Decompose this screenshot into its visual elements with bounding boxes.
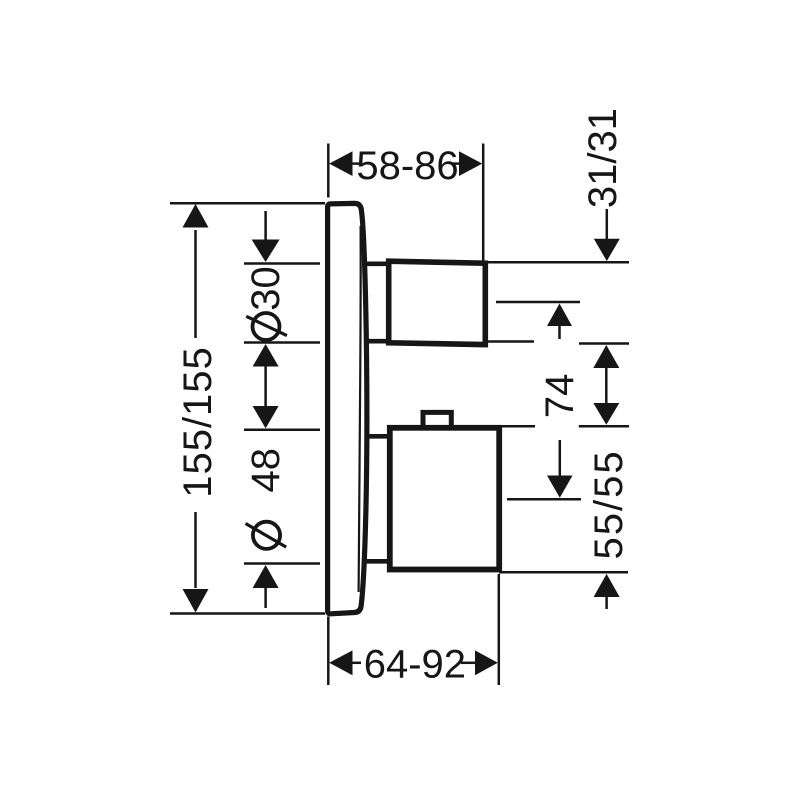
arrowhead d48 top (down) xyxy=(253,406,279,428)
escutcheon plate (side profile) xyxy=(328,203,367,613)
arrowhead 155/155 down xyxy=(183,589,209,613)
arrowhead d30 bottom (up) xyxy=(253,344,279,367)
small knob stem xyxy=(365,264,389,341)
tick small-knob bottom right xyxy=(486,342,629,344)
svg-text:55/55: 55/55 xyxy=(587,449,631,559)
diameter 48 tick bottom xyxy=(244,562,320,565)
diameter symbol of label 30 xyxy=(253,313,280,340)
diameter 48 tick top xyxy=(244,429,320,432)
dimension 155/155 top tick xyxy=(170,202,325,205)
tick big-knob bottom right xyxy=(499,571,628,574)
arrowhead 64-92 right xyxy=(475,650,498,675)
arrowhead 74 down xyxy=(593,403,619,425)
svg-text:155/155: 155/155 xyxy=(176,346,220,498)
arrowhead 31/31 (down) xyxy=(594,239,620,261)
dimension 155/155 line xyxy=(194,230,197,588)
tick small-knob top right xyxy=(483,261,630,264)
arrowhead d48 bottom (up) xyxy=(253,565,279,588)
dimension 74 line xyxy=(605,366,608,406)
chain double-arrow line between knobs xyxy=(264,364,267,408)
dimension 55/55 lower arrow tail xyxy=(605,597,608,609)
dimension 64-92 extension line right xyxy=(498,574,501,685)
svg-text:74: 74 xyxy=(538,374,582,419)
small knob body xyxy=(389,261,486,344)
arrow tail small-knob centerline xyxy=(558,324,561,339)
svg-text:48: 48 xyxy=(244,448,288,493)
arrowhead centerline small knob (up) xyxy=(547,304,572,327)
diameter symbol of label 48 xyxy=(253,522,280,549)
diameter 48 lower arrow tail xyxy=(264,588,267,608)
big knob tab xyxy=(423,412,451,426)
arrowhead 58-86 right xyxy=(459,151,482,176)
dimension 64-92 leader right xyxy=(461,662,477,665)
big knob body xyxy=(390,428,499,570)
tick small-knob centerline xyxy=(496,301,580,304)
diameter 30 tick bottom xyxy=(244,341,320,344)
dimension 58-86 extension line left xyxy=(327,144,330,198)
dimension 58-86 leader right xyxy=(452,162,462,165)
big knob stem xyxy=(365,436,390,561)
svg-text:64-92: 64-92 xyxy=(364,642,466,686)
plate front-face inner edge line xyxy=(359,226,361,592)
arrowhead d30 top (down) xyxy=(252,240,280,263)
dimension 155/155 bottom tick xyxy=(170,612,325,615)
arrowhead 155/155 up xyxy=(183,204,209,228)
dimension 64-92 extension line left xyxy=(327,617,330,686)
arrowhead 55/55 bottom (up) xyxy=(594,574,620,597)
dimension 58-86 extension line right xyxy=(482,144,485,263)
dimension 64-92 leader left xyxy=(351,662,361,665)
arrow tail big-knob centerline xyxy=(559,440,562,477)
arrowhead centerline big knob (down) xyxy=(547,476,573,498)
diameter 30 chain line top xyxy=(264,211,267,241)
svg-text:31/31: 31/31 xyxy=(581,108,625,208)
arrowhead 64-92 left xyxy=(329,650,352,675)
dimension 58-86 leader left xyxy=(351,162,360,165)
arrowhead 58-86 left xyxy=(329,151,352,176)
arrowhead 74 up xyxy=(593,345,619,368)
tick big-knob centerline xyxy=(507,498,581,501)
diameter 30 tick top xyxy=(244,262,320,265)
tick big-knob top right xyxy=(502,425,629,428)
svg-text:30: 30 xyxy=(244,266,288,311)
dimension 31/31 line xyxy=(606,209,609,240)
svg-text:58-86: 58-86 xyxy=(356,144,458,188)
